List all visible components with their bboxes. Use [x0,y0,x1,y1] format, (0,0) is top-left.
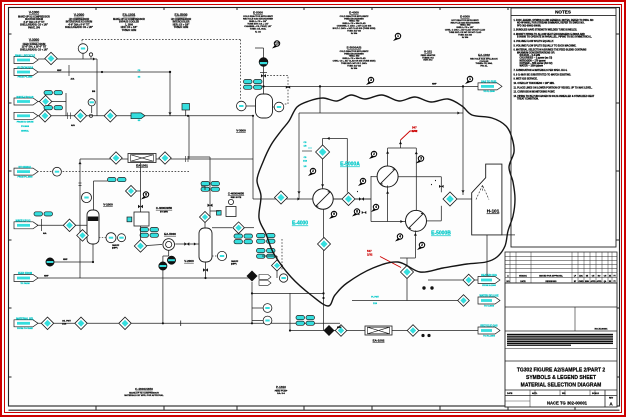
svg-text:BY MFR: BY MFR [160,212,168,214]
capsule y323 [14,320,38,327]
wire drop x80 [79,159,81,278]
bowtie main [359,197,364,200]
svg-text:EA-5000: EA-5000 [174,13,187,17]
svg-text:OIL PMT: OIL PMT [62,320,71,322]
diamond mid [233,222,245,234]
svg-text:TO V-3000: TO V-3000 [484,306,495,308]
flag 2 E5000A [369,156,374,159]
wire header y138 [323,137,348,139]
wire row EA-1001 y159 [80,158,253,160]
svg-text:TUBES: ADM: TUBES: ADM [122,29,137,32]
svg-text:N: 304: N: 304 [351,67,358,70]
instr circle V1000 [82,193,92,203]
svg-text:3: 3 [370,78,372,82]
bowtie right [439,185,444,188]
EA-1001 exchanger [128,154,156,163]
wire row y86.4 [264,85,479,87]
red mark top [401,131,418,140]
wire 504a up [322,138,324,145]
wire row y278 mid [37,277,252,279]
svg-text:NO: NO [507,281,510,283]
diamond EA1001 row b [159,152,171,164]
wire riser x299 [298,113,300,199]
flag 13 [272,45,277,48]
svg-text:FIN: AL: FIN: AL [480,65,488,68]
svg-text:MAXIMUM CONCENTRATIONS OF:: MAXIMUM CONCENTRATIONS OF: [517,51,555,54]
svg-text:NNF: NNF [57,70,62,72]
instr circle V1000 R2 [118,234,126,242]
svg-text:EA-1001: EA-1001 [122,13,135,17]
svg-text:V-2000: V-2000 [74,13,85,17]
wire 502 drop [406,279,408,301]
wire EA5000 row [147,245,162,246]
loop bottom wire [371,221,406,223]
svg-text:FROM H-2000: FROM H-2000 [482,285,496,287]
svg-text:9. WET H2S SERVICE.: 9. WET H2S SERVICE. [514,79,538,81]
wire E5000B top [415,148,417,210]
svg-text:ISSUED FOR APPROVAL: ISSUED FOR APPROVAL [539,275,563,278]
svg-text:EA-1002: EA-1002 [478,53,490,57]
pills pair A [44,91,53,95]
svg-text:5. VOLUME FLOW SPLITS EQUALLY: 5. VOLUME FLOW SPLITS EQUALLY TO EACH MA… [514,44,577,47]
svg-text:MAKE-UP H2 COMPRESSOR: MAKE-UP H2 COMPRESSOR [18,15,50,18]
svg-text:A/A: A/A [43,232,47,235]
svg-text:E-6000: E-6000 [460,15,470,19]
dots y335 [421,334,424,337]
svg-text:2: 2 [373,152,375,156]
diamond motor [200,212,211,223]
diamond y300 [458,295,470,307]
motor box left [134,212,149,226]
svg-text:HDR: CS + 1/8": HDR: CS + 1/8" [173,24,190,26]
pump C [167,256,175,264]
bowtie x140 [138,205,143,208]
svg-text:4: 4 [375,205,377,209]
svg-text:TO RC-2000: TO RC-2000 [483,336,496,338]
EA-1002 exchanger [365,326,392,335]
inline cyan capsule row3 [131,113,145,119]
svg-text:N: 304: N: 304 [462,36,469,39]
svg-text:N: 304: N: 304 [351,32,358,35]
svg-text:C-4600/4650: C-4600/4650 [228,192,245,196]
svg-text:A/A: A/A [71,78,75,81]
diamond 502 [401,266,414,279]
wire row2 y72 [38,71,170,73]
frame ruler ticks [95,7,97,10]
valve actuator circle [259,58,268,67]
svg-text:NACE TG 302-00001: NACE TG 302-00001 [547,401,588,406]
svg-text:8: 8 [145,193,147,197]
svg-text:MAKE-UP H2 COMPRESSOR: MAKE-UP H2 COMPRESSOR [113,18,145,21]
svg-text:1, 2006: 1, 2006 [125,24,133,26]
svg-text:E-5000A: E-5000A [340,162,360,168]
notes panel box [511,8,616,247]
svg-text:PWHT, JP8: PWHT, JP8 [28,27,41,29]
wire 504a drop [322,159,324,189]
svg-text:HEATER CHG: HEATER CHG [481,274,497,277]
capsule row y101 [14,98,38,105]
svg-text:SIGNAL: SIGNAL [21,130,30,133]
svg-text:EA-1001: EA-1001 [136,164,148,168]
wire drop x97 [96,59,98,116]
svg-text:8: 8 [356,210,358,214]
svg-text:(DIFF): (DIFF) [231,264,237,266]
dashed bypass [267,75,288,104]
svg-text:RECYCLE GAS: RECYCLE GAS [480,325,498,328]
outer trim line bottom [9,409,620,411]
wire drop x253 [252,116,254,199]
svg-text:MATERIAL SEL: MATERIAL SEL [16,318,34,321]
svg-text:FROM PC-3000: FROM PC-3000 [18,177,34,179]
svg-text:EA-5000: EA-5000 [164,232,176,236]
wire E4000 down [323,209,325,238]
dashed drop x237.6 [240,40,242,99]
svg-text:TUBE: CS, 904L: TUBE: CS, 904L [250,28,267,31]
svg-text:6. MATERIAL SELECTION ASSUMES: 6. MATERIAL SELECTION ASSUMES THE FEED B… [514,49,587,52]
svg-text:NNF: NNF [337,327,342,329]
svg-text:TUBES: ADM: TUBES: ADM [174,26,189,29]
svg-text:H2 COMPRESSOR: H2 COMPRESSOR [171,19,192,21]
wire into E5000A [371,176,377,178]
instr circle V3000 L [237,101,247,111]
svg-text:SUCTION DRUM: SUCTION DRUM [25,19,43,21]
wire E5000A top [387,148,389,166]
V-1000 drum [87,210,99,244]
svg-text:4: 4 [399,235,401,239]
diamond row3 b [74,110,86,122]
svg-text:FROM PU-TANK: FROM PU-TANK [17,327,33,330]
svg-text:1/32: 1/32 [412,129,418,133]
wire E5000A bottom [387,186,389,222]
svg-text:V-3000: V-3000 [236,129,246,133]
pills quad V3000 [244,80,253,84]
wire drop x170 [169,72,171,116]
wire row y280 right [428,279,479,281]
flag 9 at E4000 bottom [329,216,334,219]
svg-text:E-4000: E-4000 [292,221,308,227]
H-101 heater [472,164,502,235]
wire row1 y59 [38,58,97,60]
svg-text:H-101: H-101 [424,50,433,54]
wire H101 bottom [486,235,488,276]
diamond y323 a [41,317,53,329]
black diamond y330 [324,325,335,336]
svg-text:C-4600/4650: C-4600/4650 [135,387,153,391]
svg-text:E-4000: E-4000 [349,11,359,15]
wire drop x347 [346,138,348,192]
svg-text:GAS TO FUEL: GAS TO FUEL [481,81,498,84]
wire top rail y113 [299,112,463,114]
svg-text:TREAT CONDITION.: TREAT CONDITION. [517,98,539,101]
svg-text:PV SIGNAL: PV SIGNAL [19,166,32,169]
wire row y300 [352,300,458,302]
capsule y278 [14,275,38,282]
diamond EA1001 row a [110,152,122,164]
diamond 455 [275,191,288,204]
diamond row3 c [104,110,116,122]
svg-text:3: 3 [420,157,422,161]
wire V1000 bottom [92,244,94,262]
svg-text:05/31/01: 05/31/01 [519,276,528,278]
svg-text:1: 1 [469,77,471,81]
wire drop x463 [462,86,464,195]
diamond x140 [134,240,146,252]
capsule row y225 [14,222,38,229]
spec break A/A x68 [67,113,69,120]
E-4000 exchanger [313,189,333,209]
dots y288 [422,286,425,289]
flag near E-6000 text [465,81,470,84]
svg-text:MAKE-UP H2: MAKE-UP H2 [16,220,32,223]
pump B [159,262,167,270]
diamond y330 a [335,325,347,337]
svg-text:INTERSTAGE KO DRUM: INTERSTAGE KO DRUM [66,21,92,24]
svg-text:TO FL-1000: TO FL-1000 [483,91,495,93]
diamond row y101 [39,95,51,107]
svg-text:WATER -- 1500 ppmw: WATER -- 1500 ppmw [517,65,543,68]
svg-text:REVISIONS: REVISIONS [546,281,558,283]
svg-text:8. 9 Cr MAY BE SUBSTITUTED TO: 8. 9 Cr MAY BE SUBSTITUTED TO MATCH EXIS… [514,73,572,76]
svg-text:3. MODIFY PIPING TO ALLOW HEAT: 3. MODIFY PIPING TO ALLOW HEAT EXCHANGER… [514,33,586,36]
wire V1000 top [93,181,95,210]
wire E5000A right [398,176,441,178]
svg-text:E-5000B TO OPERATE IN PARALLEL: E-5000B TO OPERATE IN PARALLEL. PIPING T… [517,36,592,39]
diamond 504b [342,193,355,206]
svg-text:CHANNEL: CS, PWHT, 1/8": CHANNEL: CS, PWHT, 1/8" [244,25,271,28]
svg-text:SHELL/HEADS: CS + 1/8": SHELL/HEADS: CS + 1/8" [65,26,93,29]
capsule row3 [14,112,38,119]
svg-text:BYPASS COOLER: BYPASS COOLER [119,21,139,24]
diamond row1 [45,52,57,64]
diamond mid2 [272,260,283,271]
pump P A [46,258,54,266]
wire E4000 out [333,198,371,200]
flag 6 [358,183,363,186]
svg-text:INTERCOOLER: INTERCOOLER [173,22,190,24]
wire valve stem [263,67,265,96]
capsule feed row1 [14,57,38,64]
svg-text:TG302 FIGURE A2/SAMPLE 2/PART: TG302 FIGURE A2/SAMPLE 2/PART 2 [517,368,606,374]
instrument circle row1 [78,44,88,54]
svg-text:HDR: CS + 1/8": HDR: CS + 1/8" [121,27,138,29]
svg-text:V-3000: V-3000 [29,38,40,42]
svg-text:DATE: DATE [507,392,513,395]
wire diamond-to-riser [137,190,142,192]
svg-text:NNF: NNF [63,259,68,261]
svg-text:HDR: 9Cr: HDR: 9Cr [423,59,432,62]
flag 3 right [416,160,421,163]
svg-text:OXYGEN -- 560 ppmw (AS O2): OXYGEN -- 560 ppmw (AS O2) [517,62,553,65]
wire row y330 [290,330,479,332]
bowtie V2000 [203,268,208,271]
E-5000B exchanger [406,210,427,231]
bowtie left lower [362,211,367,214]
svg-text:V-2000: V-2000 [184,259,194,263]
tank capsules [259,275,271,280]
svg-text:RECYCLE GAS EXCHANGER: RECYCLE GAS EXCHANGER [243,18,273,21]
flag near E-5000A/B text [366,82,371,85]
wire pump down [162,270,164,323]
svg-text:12'-6" DIA. x 26'-0" T/T: 12'-6" DIA. x 26'-0" T/T [22,46,47,49]
tick x41 [41,219,43,231]
svg-text:(DIFF): (DIFF) [112,248,118,250]
svg-text:SHELL/HEADS: CS + 1/8": SHELL/HEADS: CS + 1/8" [20,24,48,27]
svg-text:FEED SURGE DRUM: FEED SURGE DRUM [23,44,46,46]
dashed drop x82 [81,40,83,43]
svg-text:EA-1002: EA-1002 [373,339,385,343]
flag near V-1000 [141,196,146,199]
dashed instr row y171.6 [37,171,189,173]
svg-text:P-1610: P-1610 [276,385,286,389]
svg-text:CHLORIDES -- 1 ppmw (as Cl): CHLORIDES -- 1 ppmw (as Cl) [517,58,552,60]
wire pillquad [204,186,206,190]
svg-text:13. PIPING TO BE PURCHASED IN: 13. PIPING TO BE PURCHASED IN SOLN ANNEA… [514,95,595,98]
svg-text:REV: REV [609,398,614,400]
svg-text:FROM PV-1000: FROM PV-1000 [18,77,34,79]
flag near E-4000 text [393,38,398,41]
svg-text:10. OVERLAY THICKNESS = 1/8" M: 10. OVERLAY THICKNESS = 1/8" MIN. [514,82,555,85]
svg-text:A/A: A/A [71,124,75,127]
diamond y330 b [407,325,419,337]
instr circle V2000 [217,251,226,260]
flag 4b [395,238,400,241]
svg-text:NOTES: NOTES [555,10,571,15]
revision table [505,252,617,283]
cyan square instrument x185 [182,104,190,111]
red mark bottom [380,257,401,268]
svg-text:*: * [357,191,358,194]
svg-text:E-5000: E-5000 [253,11,263,15]
pills pair B [44,106,53,110]
bowtie stem [261,74,266,77]
svg-text:DATE: DATE [520,280,526,283]
svg-text:V-1000: V-1000 [29,11,40,15]
wire x252 down [251,282,253,323]
wire row y225 [37,224,87,226]
diamond near V-1000 [126,186,137,197]
svg-text:PL PMT: PL PMT [371,297,379,299]
capsule y280 [478,277,500,284]
capsule dashed row [14,168,38,175]
pills quad C4600 [201,182,210,186]
wire 502 [406,258,408,266]
svg-text:SMALL RECYCLE: SMALL RECYCLE [15,55,36,58]
svg-text:*: * [435,180,436,183]
instrument circle above row3 [88,99,95,106]
svg-text:APPD: APPD [597,280,602,283]
loop header y148 [388,147,417,149]
small vent circle [89,53,92,56]
wire E5000B right [427,220,442,222]
wire row3 y115.8 [37,115,253,117]
svg-text:4'-0" DIA x 8'-4" T/T: 4'-0" DIA x 8'-4" T/T [23,21,45,24]
svg-text:MATERIAL SELECTION DIAGRAM: MATERIAL SELECTION DIAGRAM [521,383,602,389]
wire bracket x66 [65,93,67,116]
svg-text:6: 6 [362,179,364,183]
wire y293.4 [252,292,324,294]
svg-text:2. BUNDLES HAVE STRENGTH WELDE: 2. BUNDLES HAVE STRENGTH WELDED TUBE BUN… [514,29,578,32]
wire riser x323.5 [323,298,325,331]
wire row y101 [37,101,66,103]
svg-text:1: 1 [397,34,399,38]
svg-text:2: 2 [312,169,314,173]
instr circle V3000 R [274,102,284,112]
dashed x282 [281,239,283,270]
wire x320 into cloud [319,86,321,113]
svg-text:H2 COMPRESSOR: H2 COMPRESSOR [69,19,90,21]
svg-text:NNF: NNF [432,84,437,86]
diamond y323 c [119,317,131,329]
diamond 504a [316,145,330,159]
svg-text:*: * [431,184,432,187]
svg-text:4. VOLUME FLOW SPLITS EQUALLY.: 4. VOLUME FLOW SPLITS EQUALLY. [514,40,555,43]
flag 2b [417,247,422,250]
svg-text:11. PLACE LINES ON LOWER PORTI: 11. PLACE LINES ON LOWER PORTION OF VESS… [514,86,593,89]
svg-text:12. CORROSION MONITORING POINT: 12. CORROSION MONITORING POINT. [514,92,556,94]
svg-text:H2 FROM PSA: H2 FROM PSA [17,67,34,70]
svg-text:*: * [359,214,360,217]
E-5000A exchanger [377,166,398,187]
flag 8 [352,213,357,216]
svg-text:7. FABRICATION & MATERIALS PER: 7. FABRICATION & MATERIALS PER SPEC. HH-… [514,69,568,72]
instr circle dashed row [53,167,62,176]
instr circles stacked [252,307,263,309]
wire EA1001 drop [140,163,142,212]
svg-text:BB: BB [92,91,96,93]
svg-text:SA: S-6: SA: S-6 [277,392,285,395]
svg-text:N, CS: N, CS [255,31,261,33]
long row y323 [37,322,340,324]
svg-text:WO: WO [562,393,566,395]
motor box [226,207,236,217]
svg-text:FEED FROM: FEED FROM [18,272,32,275]
svg-text:SHELL/HEADS: CS + 1/8": SHELL/HEADS: CS + 1/8" [20,48,48,51]
svg-text:APPL: APPL [532,392,538,395]
diamond row y235 [77,230,89,242]
pills pair V1000 feed [34,212,43,216]
diamond y280 [463,274,475,286]
bowtie bypass [286,86,290,89]
pills quad y316 [296,316,305,320]
V-2000 drum [199,228,212,262]
flag 4 [371,209,376,212]
svg-text:V-1000: V-1000 [103,203,113,207]
svg-text:APPD: APPD [591,280,596,283]
black diamond tank [247,271,258,282]
instr circle V1000 R1 [106,233,116,243]
svg-text:NO-W-00001: NO-W-00001 [595,329,609,331]
svg-text:13: 13 [275,42,279,46]
svg-text:1/32: 1/32 [367,253,373,257]
red riser x400 [400,140,402,148]
V-3000 drum [256,94,273,118]
svg-text:WATER DELUGE: WATER DELUGE [479,295,498,298]
svg-text:SCALE: SCALE [592,392,599,395]
svg-text:E-5000B: E-5000B [431,231,451,237]
diamond 506 [318,238,331,251]
title block body [505,283,617,407]
loop left vertical [370,176,372,222]
svg-text:SULFUR -- 0.4 wt%: SULFUR -- 0.4 wt% [517,54,540,57]
svg-text:TK FARM: TK FARM [20,282,30,285]
svg-text:1. FOR LEGEND, SYMBOLS AND GEN: 1. FOR LEGEND, SYMBOLS AND GENERAL NOTES… [514,19,594,22]
svg-text:FROM KO DRUM: FROM KO DRUM [17,122,34,124]
pills quads mid [234,234,243,238]
svg-text:NO-W-00001. FOR STREAM SUMMARY: NO-W-00001. FOR STREAM SUMMARY, REFER TO… [517,22,585,25]
svg-text:PV-3000: PV-3000 [21,126,30,128]
wire motor [210,210,220,212]
svg-text:2: 2 [421,243,423,247]
